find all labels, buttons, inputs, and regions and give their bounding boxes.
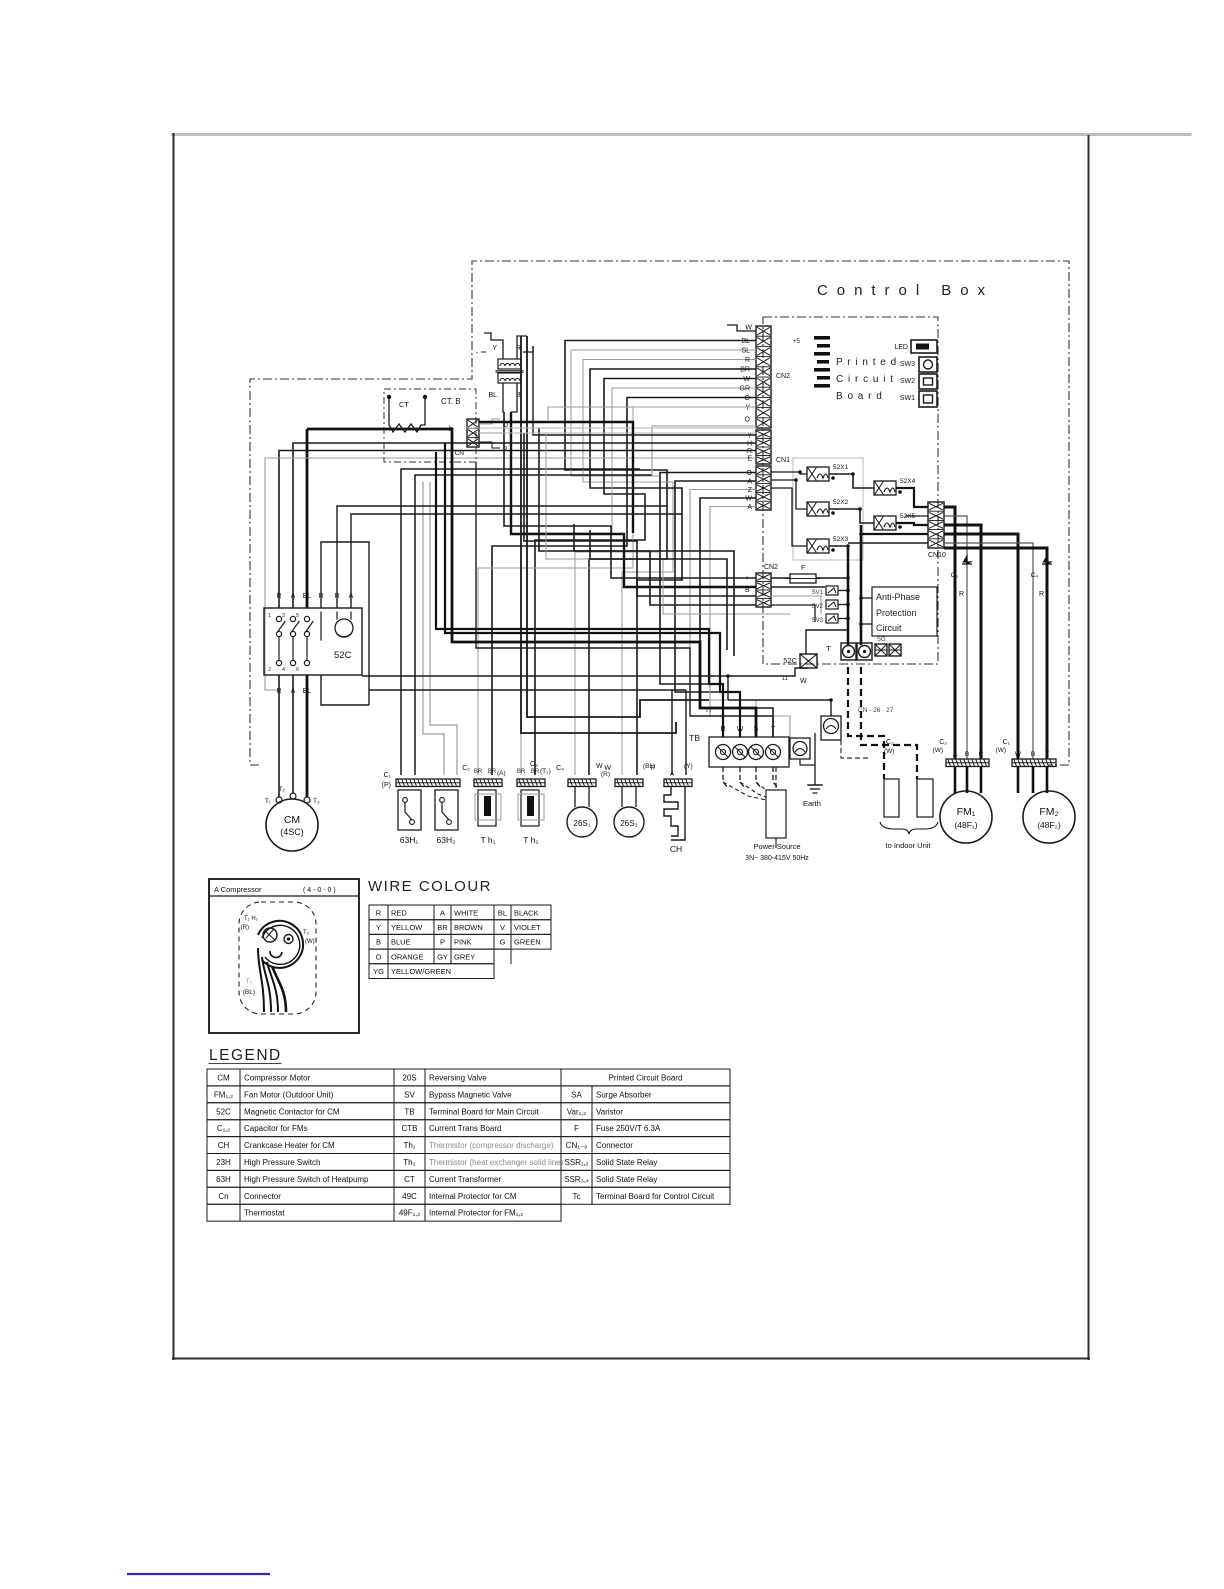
svg-text:Power Source: Power Source (753, 842, 800, 851)
svg-text:(R): (R) (241, 925, 249, 931)
svg-text:Th₂: Th₂ (403, 1158, 415, 1167)
svg-text:R: R (1039, 591, 1044, 598)
svg-text:YELLOW: YELLOW (391, 923, 423, 932)
svg-text:SW1: SW1 (900, 395, 915, 402)
svg-text:WHITE: WHITE (454, 908, 478, 917)
svg-text:6: 6 (296, 667, 299, 673)
svg-text:ORANGE: ORANGE (391, 952, 424, 961)
svg-text:SV2: SV2 (812, 604, 824, 610)
svg-text:A: A (670, 771, 675, 778)
svg-text:GR: GR (740, 386, 751, 393)
svg-text:Bypass Magnetic Valve: Bypass Magnetic Valve (429, 1090, 512, 1099)
svg-text:T₂: T₂ (303, 930, 310, 936)
svg-text:Π: Π (706, 707, 711, 714)
svg-text:W: W (743, 376, 750, 383)
svg-text:WIRE COLOUR: WIRE COLOUR (368, 878, 492, 895)
svg-text:Fan Motor (Outdoor Unit): Fan Motor (Outdoor Unit) (244, 1090, 334, 1099)
svg-text:Fuse 250V/T 6.3A: Fuse 250V/T 6.3A (596, 1124, 661, 1133)
svg-text:YELLOW/GREEN: YELLOW/GREEN (391, 967, 451, 976)
svg-text:B: B (376, 938, 381, 947)
svg-text:High Pressure Switch of Heatpu: High Pressure Switch of Heatpump (244, 1175, 369, 1184)
svg-text:Solid State Relay: Solid State Relay (596, 1175, 657, 1184)
svg-text:T₃: T₃ (313, 798, 320, 805)
svg-text:CN2: CN2 (764, 564, 778, 571)
svg-text:A: A (440, 908, 445, 917)
svg-text:GREY: GREY (454, 952, 475, 961)
svg-text:W: W (604, 765, 611, 772)
svg-text:CN₁₋₉: CN₁₋₉ (566, 1141, 588, 1150)
svg-text:TB: TB (689, 733, 700, 743)
svg-text:C₁: C₁ (384, 772, 392, 779)
svg-text:A: A (747, 504, 752, 511)
svg-text:R: R (318, 593, 323, 600)
svg-text:VIOLET: VIOLET (514, 923, 541, 932)
svg-text:TB: TB (404, 1107, 414, 1116)
svg-text:P: P (650, 765, 655, 772)
svg-text:(W): (W) (933, 747, 943, 754)
svg-text:+5: +5 (793, 338, 801, 345)
svg-text:BL: BL (303, 593, 312, 600)
svg-text:P: P (440, 938, 445, 947)
svg-text:Tc: Tc (573, 1192, 581, 1201)
svg-text:LED: LED (894, 344, 908, 351)
svg-text:F: F (801, 565, 805, 572)
svg-text:FM₁: FM₁ (957, 806, 976, 818)
svg-text:O: O (745, 417, 751, 424)
svg-text:Anti-Phase: Anti-Phase (876, 592, 920, 602)
svg-text:A: A (953, 751, 958, 758)
svg-text:R: R (979, 751, 984, 758)
svg-text:Current Transformer: Current Transformer (429, 1175, 501, 1184)
svg-text:3: 3 (282, 613, 285, 619)
svg-text:SSR₃‚₄: SSR₃‚₄ (564, 1175, 589, 1184)
svg-text:C i r c u i t: C i r c u i t (836, 374, 894, 385)
svg-text:T₁: T₁ (265, 798, 272, 805)
svg-text:Thermistor (heat exchanger sol: Thermistor (heat exchanger solid line) (429, 1158, 564, 1167)
svg-text:A: A (349, 593, 354, 600)
svg-text:CN10: CN10 (928, 552, 946, 559)
svg-text:C₂: C₂ (462, 765, 470, 772)
svg-text:RED: RED (391, 908, 407, 917)
svg-text:CM: CM (284, 814, 300, 826)
svg-text:Thermistor (compressor dischar: Thermistor (compressor discharge) (429, 1141, 554, 1150)
svg-text:T h₂: T h₂ (523, 835, 538, 845)
svg-text:52X1: 52X1 (833, 464, 849, 471)
svg-text:Capacitor for FMs: Capacitor for FMs (244, 1124, 308, 1133)
svg-text:Connector: Connector (596, 1141, 633, 1150)
svg-text:SA: SA (571, 1090, 582, 1099)
svg-text:Y: Y (376, 923, 381, 932)
svg-text:B: B (1031, 751, 1035, 758)
svg-text:CM: CM (217, 1074, 230, 1083)
svg-text:O: O (747, 470, 753, 477)
svg-text:26S₁: 26S₁ (574, 819, 591, 828)
svg-text:Cn: Cn (218, 1192, 228, 1201)
svg-text:T₃: T₃ (246, 979, 253, 985)
svg-text:FM₁‚₂: FM₁‚₂ (214, 1090, 233, 1099)
svg-text:Earth: Earth (803, 799, 821, 808)
svg-text:Y: Y (745, 405, 750, 412)
svg-text:CT: CT (404, 1175, 415, 1184)
svg-text:(W): (W) (305, 939, 315, 945)
svg-text:52X4: 52X4 (900, 478, 916, 485)
svg-text:R: R (334, 593, 339, 600)
svg-text:(48F₁): (48F₁) (954, 820, 977, 830)
svg-text:(P): (P) (382, 782, 391, 789)
svg-text:R: R (959, 591, 964, 598)
svg-text:R: R (376, 908, 382, 917)
svg-text:BL: BL (498, 908, 507, 917)
svg-text:Terminal Board for Main Circui: Terminal Board for Main Circuit (429, 1107, 540, 1116)
svg-text:T: T (771, 726, 776, 733)
svg-text:C₂: C₂ (939, 739, 947, 746)
svg-text:BLUE: BLUE (391, 938, 411, 947)
svg-text:GREEN: GREEN (514, 938, 541, 947)
svg-text:C₁: C₁ (1003, 739, 1011, 746)
svg-text:52X2: 52X2 (833, 499, 849, 506)
svg-text:T₁ H₂: T₁ H₂ (244, 916, 259, 922)
svg-text:Printed Circuit Board: Printed Circuit Board (609, 1074, 683, 1083)
svg-text:(A): (A) (497, 770, 506, 777)
svg-text:Crankcase Heater for CM: Crankcase Heater for CM (244, 1141, 335, 1150)
svg-text:4: 4 (282, 667, 285, 673)
svg-text:High Pressure Switch: High Pressure Switch (244, 1158, 320, 1167)
svg-text:C₄: C₄ (556, 765, 564, 772)
svg-text:11: 11 (782, 676, 789, 682)
svg-text:G: G (500, 938, 506, 947)
svg-text:BLACK: BLACK (514, 908, 539, 917)
svg-text:CN1: CN1 (776, 457, 790, 464)
svg-text:63H₂: 63H₂ (437, 835, 456, 845)
svg-text:49C: 49C (402, 1192, 417, 1201)
svg-text:T₂: T₂ (279, 786, 286, 793)
svg-text:BR: BR (488, 769, 497, 775)
svg-text:V: V (500, 923, 505, 932)
svg-text:C₂: C₂ (886, 739, 894, 746)
svg-text:Reversing Valve: Reversing Valve (429, 1074, 487, 1083)
svg-text:FM₂: FM₂ (1039, 806, 1058, 818)
svg-text:F: F (574, 1124, 579, 1133)
svg-text:CTB: CTB (402, 1124, 418, 1133)
svg-text:CN: CN (455, 450, 465, 457)
svg-text:2: 2 (268, 667, 271, 673)
svg-text:R: R (276, 688, 281, 695)
svg-text:W: W (745, 325, 752, 332)
svg-text:52C: 52C (216, 1107, 231, 1116)
svg-text:CT. B: CT. B (441, 397, 461, 406)
svg-text:(48F₂): (48F₂) (1037, 820, 1061, 830)
svg-text:C₃: C₃ (951, 572, 959, 579)
svg-text:BR: BR (474, 769, 483, 775)
svg-text:SG: SG (877, 637, 886, 643)
svg-text:A: A (291, 688, 296, 695)
svg-text:+: + (745, 575, 749, 582)
svg-text:52C: 52C (783, 656, 797, 665)
svg-text:T: T (826, 644, 831, 653)
svg-text:GY: GY (437, 952, 448, 961)
svg-text:52C: 52C (334, 650, 352, 661)
svg-text:Varistor: Varistor (596, 1107, 623, 1116)
svg-text:Surge Absorber: Surge Absorber (596, 1090, 652, 1099)
svg-text:5: 5 (296, 613, 299, 619)
svg-text:H: H (747, 441, 752, 448)
svg-text:P r i n t e d: P r i n t e d (836, 357, 897, 368)
svg-text:49F₁‚₂: 49F₁‚₂ (399, 1209, 420, 1218)
svg-text:R: R (720, 726, 725, 733)
svg-text:Terminal Board for Control Cir: Terminal Board for Control Circuit (596, 1192, 715, 1201)
svg-text:CT: CT (399, 400, 409, 409)
svg-text:C₄: C₄ (1031, 572, 1039, 579)
svg-text:(W): (W) (884, 748, 894, 755)
svg-text:B o a r d: B o a r d (836, 391, 883, 402)
svg-text:LEGEND: LEGEND (209, 1047, 282, 1064)
svg-text:W: W (745, 496, 752, 503)
svg-text:O: O (745, 395, 751, 402)
svg-text:E: E (747, 456, 752, 463)
svg-text:Solid State Relay: Solid State Relay (596, 1158, 657, 1167)
svg-text:SW2: SW2 (900, 378, 915, 385)
svg-text:(BL): (BL) (243, 989, 255, 996)
svg-text:BL: BL (303, 688, 312, 695)
svg-text:W: W (1015, 751, 1022, 758)
svg-text:SSR₁‚₂: SSR₁‚₂ (564, 1158, 588, 1167)
svg-text:Y: Y (747, 433, 752, 440)
svg-text:BR: BR (517, 769, 526, 775)
svg-text:SV3: SV3 (812, 618, 824, 624)
svg-text:Var₁‚₂: Var₁‚₂ (567, 1107, 586, 1116)
svg-text:(Y): (Y) (684, 763, 693, 770)
svg-text:Magnetic Contactor for CM: Magnetic Contactor for CM (244, 1107, 340, 1116)
svg-text:B: B (745, 587, 750, 594)
svg-text:Internal Protector for CM: Internal Protector for CM (429, 1192, 517, 1201)
svg-text:CN2: CN2 (776, 373, 790, 380)
svg-text:R: R (745, 357, 750, 364)
svg-text:( 4 - 0 - 0 ): ( 4 - 0 - 0 ) (303, 887, 336, 894)
svg-text:W: W (800, 678, 807, 685)
svg-text:Thermostat: Thermostat (244, 1209, 285, 1218)
svg-text:SV1: SV1 (812, 590, 824, 596)
svg-text:63H: 63H (216, 1175, 231, 1184)
svg-text:(W): (W) (996, 747, 1006, 754)
svg-text:Y: Y (1045, 751, 1050, 758)
svg-text:SL: SL (741, 348, 750, 355)
svg-text:S: S (754, 726, 759, 733)
svg-text:C o n t r o l B o x: C o n t r o l B o x (817, 282, 987, 299)
svg-text:R: R (747, 448, 752, 455)
svg-text:26S₂: 26S₂ (620, 819, 637, 828)
svg-text:C₃: C₃ (530, 761, 538, 768)
svg-text:W: W (737, 726, 744, 733)
svg-text:Z: Z (748, 487, 753, 494)
svg-text:A: A (291, 593, 296, 600)
svg-text:BL: BL (741, 338, 750, 345)
svg-text:Protection: Protection (876, 608, 917, 618)
svg-text:W: W (596, 763, 603, 770)
svg-text:Compressor Motor: Compressor Motor (244, 1074, 311, 1083)
svg-text:(4SC): (4SC) (280, 827, 304, 837)
svg-text:CH: CH (218, 1141, 230, 1150)
svg-text:CN - 26 · 27: CN - 26 · 27 (858, 707, 894, 714)
svg-text:(T₂): (T₂) (540, 768, 551, 775)
svg-text:B: B (965, 751, 969, 758)
svg-text:Y: Y (492, 345, 497, 352)
svg-text:T h₁: T h₁ (481, 835, 496, 845)
svg-text:Current Trans Board: Current Trans Board (429, 1124, 501, 1133)
svg-text:SV: SV (404, 1090, 415, 1099)
svg-text:PINK: PINK (454, 938, 472, 947)
svg-text:Circuit: Circuit (876, 623, 902, 633)
svg-text:(R): (R) (601, 771, 610, 778)
svg-text:A Compressor: A Compressor (214, 885, 262, 894)
svg-text:SW3: SW3 (900, 361, 915, 368)
svg-text:23H: 23H (216, 1158, 231, 1167)
svg-text:1: 1 (268, 613, 271, 619)
svg-text:63H₁: 63H₁ (400, 835, 419, 845)
svg-text:52X3: 52X3 (833, 536, 849, 543)
svg-text:to Indoor Unit: to Indoor Unit (885, 841, 931, 850)
svg-text:R: R (276, 593, 281, 600)
svg-text:Internal Protector for FM₁‚₂: Internal Protector for FM₁‚₂ (429, 1209, 523, 1218)
svg-text:P: P (503, 446, 507, 453)
svg-text:CH: CH (670, 844, 682, 854)
svg-text:O: O (376, 952, 382, 961)
svg-text:BROWN: BROWN (454, 923, 483, 932)
svg-text:3N~ 380-415V 50Hz: 3N~ 380-415V 50Hz (745, 855, 809, 862)
svg-text:YG: YG (373, 967, 384, 976)
svg-text:Connector: Connector (244, 1192, 281, 1201)
svg-text:A: A (747, 479, 752, 486)
svg-text:BR: BR (740, 367, 750, 374)
svg-text:BL: BL (488, 392, 497, 399)
svg-text:20S: 20S (402, 1074, 416, 1083)
svg-text:BR: BR (437, 923, 448, 932)
svg-text:BR: BR (531, 769, 540, 775)
svg-text:Th₁: Th₁ (403, 1141, 415, 1150)
svg-text:C₁‚₂: C₁‚₂ (217, 1124, 230, 1133)
